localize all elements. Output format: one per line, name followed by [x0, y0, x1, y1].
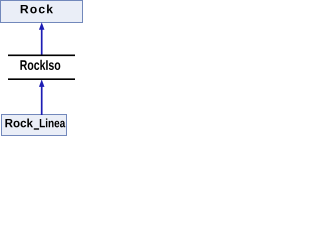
- RockIso node top rule: [8, 54, 75, 56]
- inheritance arrow 1 shaft: [41, 30, 43, 56]
- label Rock_Linear: "Linear" run: [40, 119, 69, 128]
- label Rock_Linear: "Rock" run (clipped to bottom box): [5, 119, 69, 130]
- label Rock_Linear: underscore: [34, 128, 39, 129]
- inheritance arrow 2 head (Rock_Linear to RockIso): [39, 79, 45, 87]
- class box Rock_Linear (derived class, bottom): [1, 114, 67, 136]
- label RockIso (middle node): [20, 60, 60, 70]
- label Rock (top box): [21, 5, 53, 14]
- class box Rock (base class, top): [0, 0, 83, 23]
- RockIso node bottom rule: [8, 78, 75, 80]
- inheritance arrow 1 head (RockIso to Rock): [39, 22, 45, 30]
- inheritance arrow 2 shaft: [41, 87, 43, 116]
